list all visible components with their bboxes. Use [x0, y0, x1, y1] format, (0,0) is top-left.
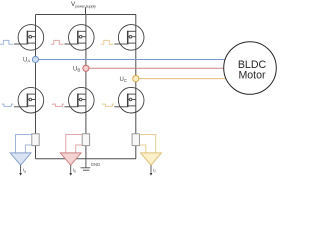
shunt resistor RB	[82, 134, 89, 146]
wire phase leg B vertical	[85, 15, 87, 159]
svg-text:UA: UA	[23, 58, 30, 64]
svg-text:Ia: Ia	[23, 168, 26, 174]
output arrow IB	[70, 165, 72, 173]
svg-text:Vpower supply: Vpower supply	[71, 1, 96, 8]
wire bottom rail	[36, 158, 137, 160]
gate pulse B high	[51, 40, 63, 44]
gate pulse B low (inverted)	[52, 104, 64, 106]
node UB dot	[83, 65, 89, 71]
svg-text:UC: UC	[120, 77, 128, 83]
svg-text:Motor: Motor	[238, 70, 266, 82]
BLDC motor	[224, 42, 277, 95]
gate pulse C high	[101, 40, 113, 44]
shunt resistor RC	[132, 134, 139, 146]
shunt resistor RA	[32, 134, 39, 146]
gate pulse A high	[0, 40, 13, 44]
output arrow IA	[20, 165, 22, 173]
wire phase C line to motor	[136, 78, 226, 80]
wire top rail V+	[36, 14, 137, 16]
wire phase B line to motor	[86, 67, 224, 69]
op-amp C (current sense)	[141, 153, 162, 165]
wire phase A line to motor	[36, 59, 226, 61]
gate pulse A low (inverted)	[2, 104, 14, 106]
transistor Q1 (high side A)	[14, 25, 44, 51]
op-amp A (current sense)	[10, 153, 31, 165]
ground bars	[81, 167, 91, 169]
transistor Q2 (low side A)	[14, 87, 44, 113]
wire phase leg C vertical	[135, 15, 137, 159]
sense wires amp B	[66, 135, 82, 153]
transistor Q3 (high side B)	[64, 25, 94, 51]
node UA dot	[32, 56, 38, 62]
svg-text:GND: GND	[91, 162, 100, 167]
transistor Q4 (low side B)	[64, 87, 94, 113]
output arrow IC	[150, 165, 152, 173]
ground stub	[85, 159, 87, 168]
transistor Q5 (high side C)	[114, 25, 144, 51]
gate pulse C low (inverted)	[102, 104, 114, 106]
transistor Q6 (low side C)	[114, 87, 144, 113]
sense wires amp A	[16, 135, 32, 153]
wire power supply drop	[85, 7, 87, 14]
svg-text:UB: UB	[73, 67, 80, 73]
node UC dot	[133, 76, 139, 82]
wire phase leg A vertical	[35, 15, 37, 159]
svg-text:Ib: Ib	[73, 168, 76, 174]
sense wires amp C	[140, 135, 156, 153]
svg-text:Ic: Ic	[153, 168, 156, 174]
op-amp B (current sense)	[60, 153, 81, 165]
